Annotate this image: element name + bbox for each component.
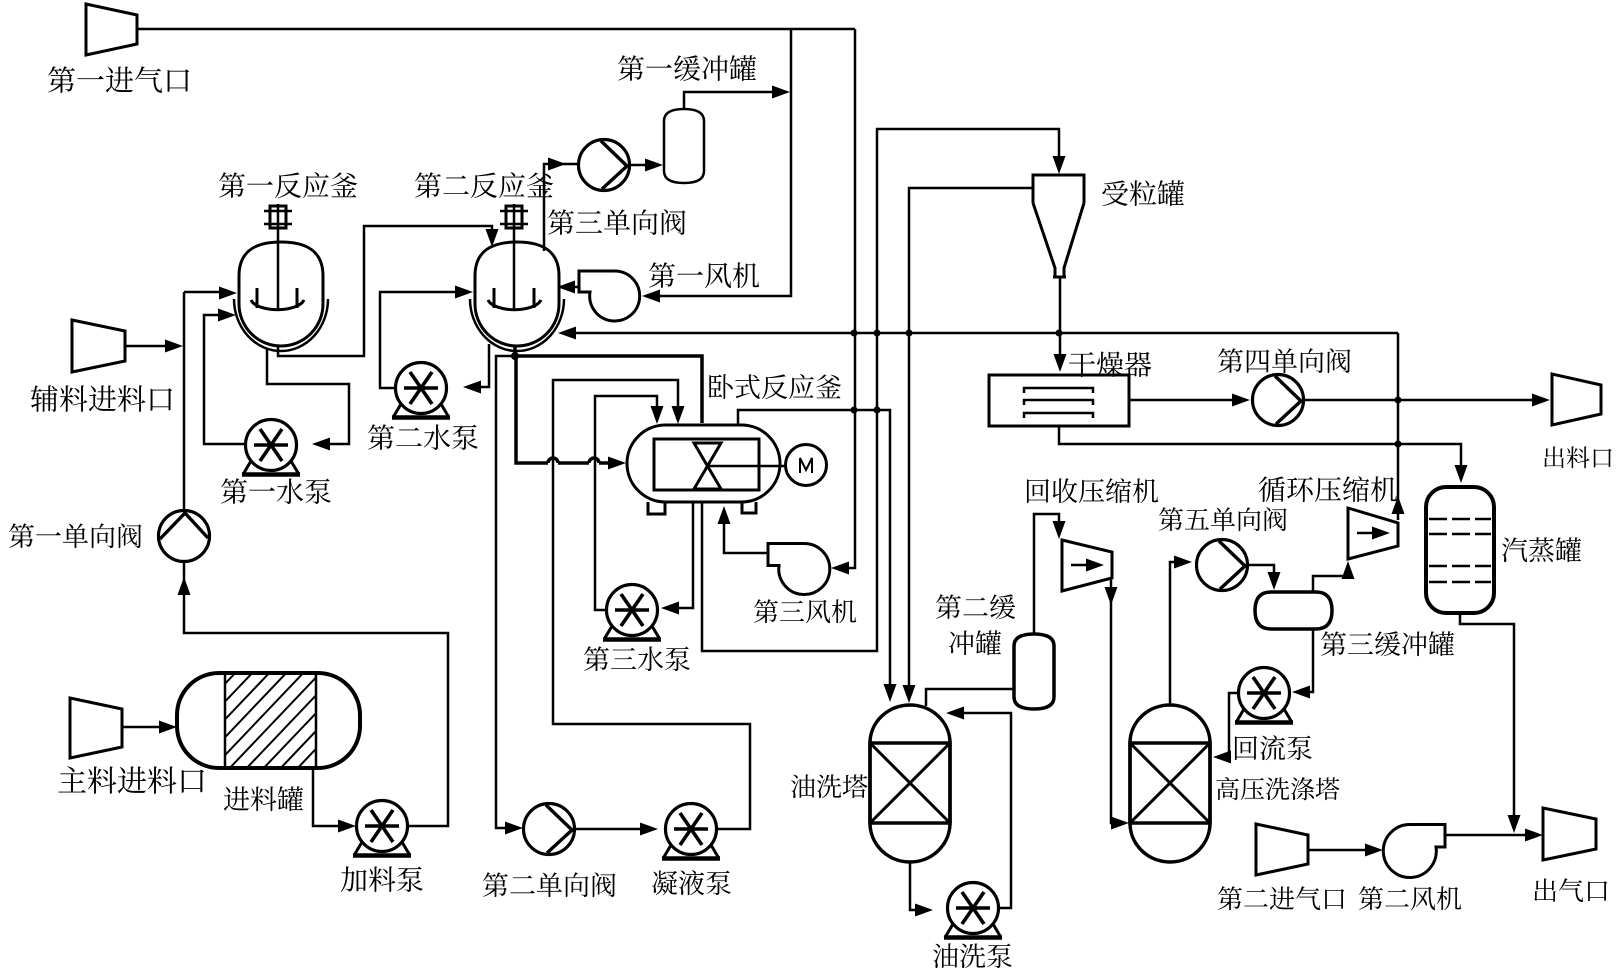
- label 辅料进料口: [31, 385, 172, 412]
- wire: 第二水泵 outlet to 第二反应釜: [380, 292, 456, 388]
- wire: feed riser x184 with 辅料 junction: [183, 292, 186, 510]
- shaft to motor: [707, 465, 786, 468]
- wire: junction to 卧式反应釜 top inlet: [515, 356, 702, 423]
- impeller 第二反应釜: [488, 288, 541, 310]
- label 第一单向阀: [9, 523, 142, 548]
- vessel 卧式反应釜: [627, 425, 780, 502]
- wire: 受粒罐 side tap down to 油洗塔: [909, 188, 1033, 697]
- fan 第一风机: [579, 271, 640, 321]
- dryer 干燥器: [989, 375, 1129, 426]
- label 油洗塔: [791, 774, 868, 798]
- wire: 第五单向阀 to 第三缓冲罐: [1248, 565, 1274, 576]
- inlet nozzle 第二进气口: [1256, 824, 1308, 875]
- wire: 第一水泵 outlet to 第一反应釜: [204, 315, 245, 444]
- label 第二进气口: [1218, 886, 1344, 910]
- wire: riser x791 down to 第一风机: [658, 29, 791, 296]
- agitator bowtie 卧式反应釜: [694, 443, 721, 489]
- label 第三缓冲罐: [1321, 631, 1454, 656]
- pump 油洗泵: [944, 883, 1002, 938]
- wire: 加料泵 outlet up to 第一单向阀: [184, 561, 448, 826]
- pump 第三水泵: [603, 585, 661, 640]
- inlet nozzle 第一进气口: [86, 4, 137, 55]
- label 第三风机: [754, 599, 856, 623]
- motor M: [786, 445, 827, 486]
- wire: 主料进料口 to 进料罐: [122, 726, 160, 729]
- impeller 第一反应釜: [251, 288, 304, 310]
- label 干燥器: [1069, 351, 1151, 377]
- stirrer gland 第一反应釜: [264, 206, 292, 228]
- label 油洗泵: [933, 943, 1012, 968]
- wire: 回流泵 outlet to 高压洗涤塔: [1228, 693, 1238, 757]
- label 回收压缩机: [1027, 478, 1158, 503]
- label 第二风机: [1359, 886, 1461, 910]
- wire: 第二缓冲罐 to 回收压缩机: [1034, 514, 1059, 634]
- wire: riser x1398 compressor discharge: [1397, 333, 1400, 520]
- label 第三单向阀: [548, 209, 685, 235]
- wire: 第一反应釜 bottom to 第二反应釜 top: [278, 226, 492, 356]
- label 加料泵: [341, 866, 423, 892]
- label 第一反应釜: [219, 172, 357, 198]
- wire: 油洗塔 bottom to 油洗泵: [910, 862, 916, 910]
- wire: 干燥器 bottom to 汽蒸罐: [1059, 426, 1461, 468]
- stirrer shaft 第一反应釜: [277, 204, 280, 311]
- pump 第二水泵: [392, 363, 450, 418]
- pump 凝液泵: [662, 804, 720, 859]
- node x1398 on y444: [1395, 441, 1402, 448]
- stirrer shaft 第二反应釜: [513, 204, 516, 311]
- wire: 干燥器 to 第四单向阀: [1129, 399, 1234, 402]
- stirrer gland 第二反应釜: [500, 206, 528, 228]
- tower 高压洗涤塔: [1130, 705, 1210, 862]
- steam tank 汽蒸罐: [1426, 487, 1494, 613]
- label 第一缓冲罐: [618, 55, 756, 81]
- compressor 回收压缩机: [1062, 540, 1112, 591]
- node crossings y410: [851, 407, 881, 414]
- wire: 第二缓冲罐 drain to 油洗塔: [926, 689, 1014, 706]
- label 受粒罐: [1102, 180, 1184, 206]
- tower 油洗塔: [870, 705, 950, 862]
- wire: 受粒罐 bottom to 干燥器: [1059, 276, 1062, 357]
- wire: 第二反应釜 jacket to 第二水泵: [479, 344, 489, 387]
- wire: main recycle line into 第二反应釜: [574, 332, 1398, 335]
- wire: 第三水泵 outlet to 卧式反应釜 top: [595, 396, 657, 610]
- check valve 第五单向阀: [1197, 540, 1248, 591]
- label 第二缓: [936, 594, 1015, 619]
- support legs 卧式反应釜: [648, 502, 756, 514]
- buffer tank 第二缓冲罐: [1014, 634, 1054, 709]
- label 主料进料口: [58, 766, 204, 793]
- wire: riser x855 down to 第三风机: [847, 29, 855, 568]
- level dashes 汽蒸罐: [1429, 519, 1491, 582]
- wire: 高压洗涤塔 top to 第五单向阀: [1170, 562, 1176, 705]
- label 第三水泵: [584, 646, 690, 671]
- label 卧式反应釜: [709, 374, 842, 399]
- vessel 第一缓冲罐: [664, 109, 704, 183]
- compressor 循环压缩机: [1348, 508, 1398, 559]
- label 第二反应釜: [415, 172, 553, 198]
- wire: 第一缓冲罐 top outlet to riser x791: [684, 92, 772, 109]
- wire: 卧式反应釜 top outlet to 油洗塔: [738, 410, 890, 687]
- check valve 第三单向阀: [579, 140, 630, 191]
- wire: 第二单向阀 to 凝液泵: [573, 828, 641, 831]
- wire: 卧式反应釜 bottom to 第三水泵: [677, 502, 693, 608]
- wire: 进料罐 bottom to 加料泵: [313, 768, 340, 826]
- check valve 第二单向阀: [524, 804, 575, 855]
- wire: 第四单向阀 to 出料口: [1304, 399, 1534, 402]
- cyclone 受粒罐: [1033, 175, 1084, 277]
- jacket arc 第二反应釜: [470, 299, 564, 351]
- pump 回流泵: [1235, 668, 1293, 723]
- wire: 凝液泵 outlet up to 卧式反应釜: [553, 380, 750, 829]
- wire: inlet into 第一反应釜: [184, 291, 220, 294]
- wire: 第一反应釜 jacket to 第一水泵: [267, 348, 349, 444]
- shelves 干燥器: [1024, 388, 1093, 418]
- label 回流泵: [1235, 735, 1312, 760]
- wire: 第二风机 to 出气口: [1445, 834, 1527, 837]
- label 循环压缩机: [1259, 476, 1397, 502]
- outlet nozzle 出料口: [1552, 374, 1601, 425]
- wire: 回收压缩机 discharge down to 高压洗涤塔: [1111, 578, 1113, 823]
- node: 第二反应釜 bottom junction: [513, 347, 517, 356]
- reactor vessel 第一反应釜: [239, 242, 323, 346]
- wire: 第三风机 outlet up into 卧式反应釜 bottom: [724, 521, 768, 553]
- reactor vessel 第二反应釜: [475, 242, 559, 346]
- wire: junction to 卧式反应釜 left inlet (with hops): [516, 356, 617, 463]
- pump 第一水泵: [242, 420, 300, 475]
- node junctions on main line: [851, 330, 1063, 337]
- inlet nozzle 主料进料口: [70, 698, 122, 758]
- wire: 汽蒸罐 bottom to outlet line: [1460, 613, 1514, 818]
- wire: junction down to 第二单向阀: [496, 356, 515, 828]
- inlet nozzle 辅料进料口: [72, 320, 125, 372]
- label 第二单向阀: [483, 872, 616, 897]
- wire: 第三单向阀 to 第一缓冲罐: [630, 164, 648, 167]
- wire: 第一进气口 to x855 riser: [137, 28, 855, 31]
- jacket arc 第一反应釜: [234, 299, 328, 351]
- wire: 第二进气口 to 第二风机: [1308, 849, 1367, 852]
- wire: 第一风机 outlet into 第二反应釜: [572, 286, 579, 289]
- node x1398 on outlet line: [1395, 397, 1402, 404]
- fan 第三风机: [768, 543, 830, 594]
- label 第五单向阀: [1159, 507, 1287, 531]
- pump 加料泵: [353, 801, 411, 856]
- label 第一进气口: [48, 66, 189, 93]
- label 第一水泵: [221, 478, 331, 504]
- feed tank 进料罐: [177, 673, 360, 768]
- check valve 第四单向阀: [1253, 375, 1304, 426]
- label 出气口: [1534, 878, 1607, 902]
- label 第一风机: [649, 262, 759, 288]
- inner box 卧式反应釜: [654, 439, 759, 490]
- outlet nozzle 出气口: [1543, 808, 1596, 860]
- wire: 油洗泵 outlet up to 油洗塔 top: [961, 713, 1011, 908]
- label 汽蒸罐: [1502, 537, 1581, 562]
- wire: 第三水泵 header up and over to 受粒罐: [702, 129, 1059, 651]
- wire: 第三缓冲罐 bottom to 回流泵: [1307, 629, 1313, 692]
- label 第四单向阀: [1218, 348, 1351, 373]
- check valve 第一单向阀: [159, 511, 210, 562]
- wire: 第三缓冲罐 to 循环压缩机: [1313, 576, 1348, 592]
- label 凝液泵: [652, 870, 731, 895]
- wire: 辅料进料口 to riser: [125, 345, 166, 348]
- label 高压洗涤塔: [1216, 777, 1339, 800]
- label 进料罐: [224, 786, 303, 811]
- buffer tank 第三缓冲罐: [1255, 592, 1332, 629]
- fan 第二风机: [1383, 824, 1445, 877]
- label 出料口: [1544, 446, 1611, 468]
- wire: 第二反应釜 dome to 第三单向阀: [544, 164, 578, 251]
- label 冲罐: [949, 630, 1001, 655]
- label 第二水泵: [368, 424, 478, 450]
